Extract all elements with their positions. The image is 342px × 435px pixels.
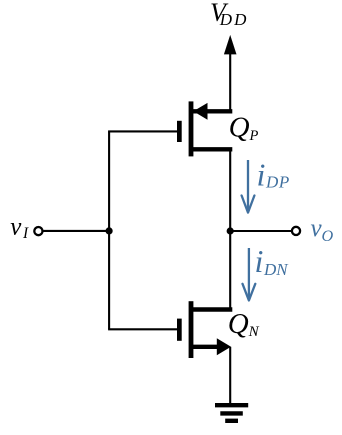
svg-text:I: I [22, 225, 29, 242]
wire QP drain to output node [229, 149, 231, 309]
current arrow iDP [242, 160, 255, 213]
svg-text:DP: DP [265, 173, 290, 192]
label QN [228, 308, 260, 340]
gate bus vertical wire [108, 131, 110, 329]
node vO junction [227, 227, 234, 234]
node vI junction dot [106, 227, 113, 234]
net VDD label [210, 0, 248, 29]
label vI [10, 214, 29, 243]
svg-text:N: N [248, 324, 260, 340]
transistor QN (NMOS) [177, 301, 232, 358]
label QP [229, 112, 259, 144]
svg-text:DN: DN [263, 260, 289, 279]
svg-text:v: v [10, 214, 22, 241]
power supply VDD arrow [224, 35, 237, 112]
svg-text:DD: DD [219, 10, 249, 29]
label iDN [255, 243, 290, 279]
output wire [230, 230, 292, 232]
svg-text:i: i [255, 243, 264, 279]
input wire [44, 230, 110, 232]
transistor QP (PMOS) [177, 101, 232, 156]
label iDP [257, 157, 290, 193]
svg-text:Q: Q [229, 112, 250, 144]
svg-text:O: O [322, 227, 334, 245]
label vO [311, 215, 334, 245]
svg-text:Q: Q [228, 308, 249, 340]
wire to QP gate [108, 130, 177, 132]
svg-text:i: i [257, 157, 266, 193]
current arrow iDN [243, 248, 256, 300]
wire QN source to ground [229, 347, 231, 404]
wire to QN gate [108, 328, 177, 330]
terminal vI circle [34, 227, 42, 235]
terminal vO circle [292, 227, 300, 235]
svg-text:P: P [249, 128, 259, 144]
ground [215, 405, 248, 421]
